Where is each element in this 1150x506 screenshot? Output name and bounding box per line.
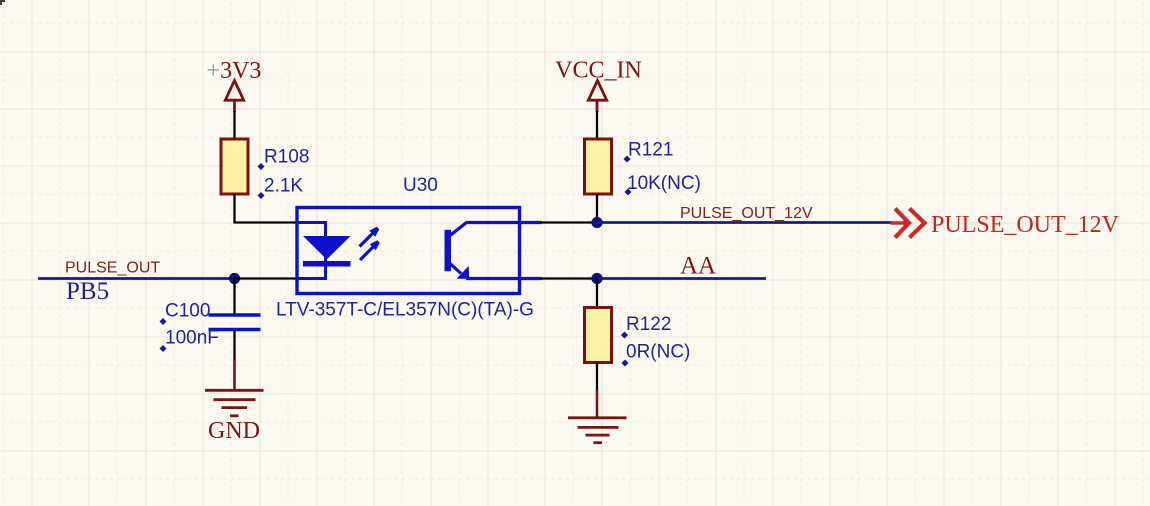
U30 phototransistor collector bbox=[450, 223, 542, 236]
net PB5 label bbox=[66, 278, 109, 305]
power port VCC_IN label bbox=[555, 58, 642, 84]
svg-text:AA: AA bbox=[680, 253, 716, 280]
svg-text:100nF: 100nF bbox=[165, 328, 219, 349]
svg-text:10K(NC): 10K(NC) bbox=[627, 173, 701, 194]
U30 LED light arrow upper bbox=[360, 227, 380, 247]
svg-text:R108: R108 bbox=[264, 147, 309, 168]
net AA label bbox=[680, 253, 716, 280]
net PULSE_OUT label bbox=[65, 260, 160, 277]
U30 phototransistor emitter with arrow bbox=[450, 264, 542, 279]
wire +3V3 to R108 bbox=[233, 111, 235, 139]
U30 LED light arrow lower bbox=[360, 240, 380, 260]
R108 value label 2.1K bbox=[257, 176, 303, 200]
wire U30 pin4 to junction (top right) bbox=[540, 221, 597, 223]
wire R108 to U30 pin1 (bend) bbox=[235, 194, 297, 223]
ground GND left symbol bbox=[205, 360, 264, 416]
sheet corner mark bbox=[0, 0, 5, 5]
net PULSE_OUT_12V small label bbox=[680, 205, 813, 222]
power port +3V3 arrow symbol bbox=[225, 81, 243, 113]
svg-text:GND: GND bbox=[208, 418, 260, 444]
ground GND text label bbox=[208, 418, 260, 444]
svg-text:PULSE_OUT_12V: PULSE_OUT_12V bbox=[680, 205, 813, 222]
optocoupler U30 designator label bbox=[403, 175, 438, 196]
svg-text:R122: R122 bbox=[626, 314, 671, 335]
resistor R108 bbox=[221, 139, 248, 194]
resistor R121 bbox=[585, 139, 612, 194]
wire junction to U30 pin2 bbox=[235, 277, 297, 279]
R122 value label 0R(NC) bbox=[621, 342, 690, 367]
svg-text:C100: C100 bbox=[165, 301, 210, 322]
wire R122 to GND bbox=[596, 363, 598, 391]
C100 value label 100nF bbox=[159, 328, 218, 353]
svg-text:U30: U30 bbox=[403, 175, 438, 196]
U30 LED cathode bar bbox=[303, 261, 351, 267]
svg-text:PB5: PB5 bbox=[66, 278, 109, 305]
port PULSE_OUT_12V text bbox=[931, 212, 1120, 238]
power port +3V3 label bbox=[207, 58, 262, 84]
wire junction down to C100 bbox=[233, 279, 235, 315]
R121 designator label bbox=[623, 140, 673, 163]
svg-text:PULSE_OUT_12V: PULSE_OUT_12V bbox=[931, 212, 1120, 238]
optocoupler U30 body box bbox=[297, 208, 520, 294]
R121 value label 10K(NC) bbox=[624, 173, 700, 196]
resistor R122 bbox=[585, 308, 612, 363]
net PULSE_OUT_12V wire bbox=[597, 221, 892, 224]
U30 LED anode internal wire bbox=[298, 223, 326, 279]
junction node at PB5/C100 bbox=[229, 273, 240, 284]
ground symbol right bbox=[568, 390, 627, 443]
wire U30 pin3 to junction (bottom right) bbox=[540, 277, 597, 279]
R122 designator label bbox=[621, 314, 671, 339]
svg-text:0R(NC): 0R(NC) bbox=[626, 342, 690, 363]
power port VCC_IN arrow symbol bbox=[588, 81, 606, 113]
U30 phototransistor base bar bbox=[445, 230, 452, 271]
svg-text:2.1K: 2.1K bbox=[264, 176, 303, 197]
capacitor C100 bbox=[209, 315, 261, 330]
U30 LED triangle bbox=[303, 236, 351, 260]
wire C100 to GND bbox=[233, 331, 235, 360]
svg-text:R121: R121 bbox=[628, 140, 673, 161]
junction node at R121/PULSE_OUT_12V bbox=[591, 217, 602, 228]
wire junction down to R122 bbox=[596, 279, 598, 309]
junction node at R122/AA bbox=[591, 273, 602, 284]
wire VCC_IN to R121 bbox=[596, 111, 598, 139]
R108 designator label bbox=[257, 147, 309, 171]
port PULSE_OUT_12V chevron bbox=[891, 209, 925, 238]
svg-text:PULSE_OUT: PULSE_OUT bbox=[65, 260, 160, 277]
U30 part number label bbox=[276, 300, 534, 321]
svg-text:LTV-357T-C/EL357N(C)(TA)-G: LTV-357T-C/EL357N(C)(TA)-G bbox=[276, 300, 534, 321]
wire PULSE_OUT main net bbox=[38, 277, 235, 280]
wire R121 to junction bbox=[596, 194, 598, 223]
C100 designator label bbox=[159, 301, 210, 326]
net AA wire bbox=[597, 277, 766, 280]
